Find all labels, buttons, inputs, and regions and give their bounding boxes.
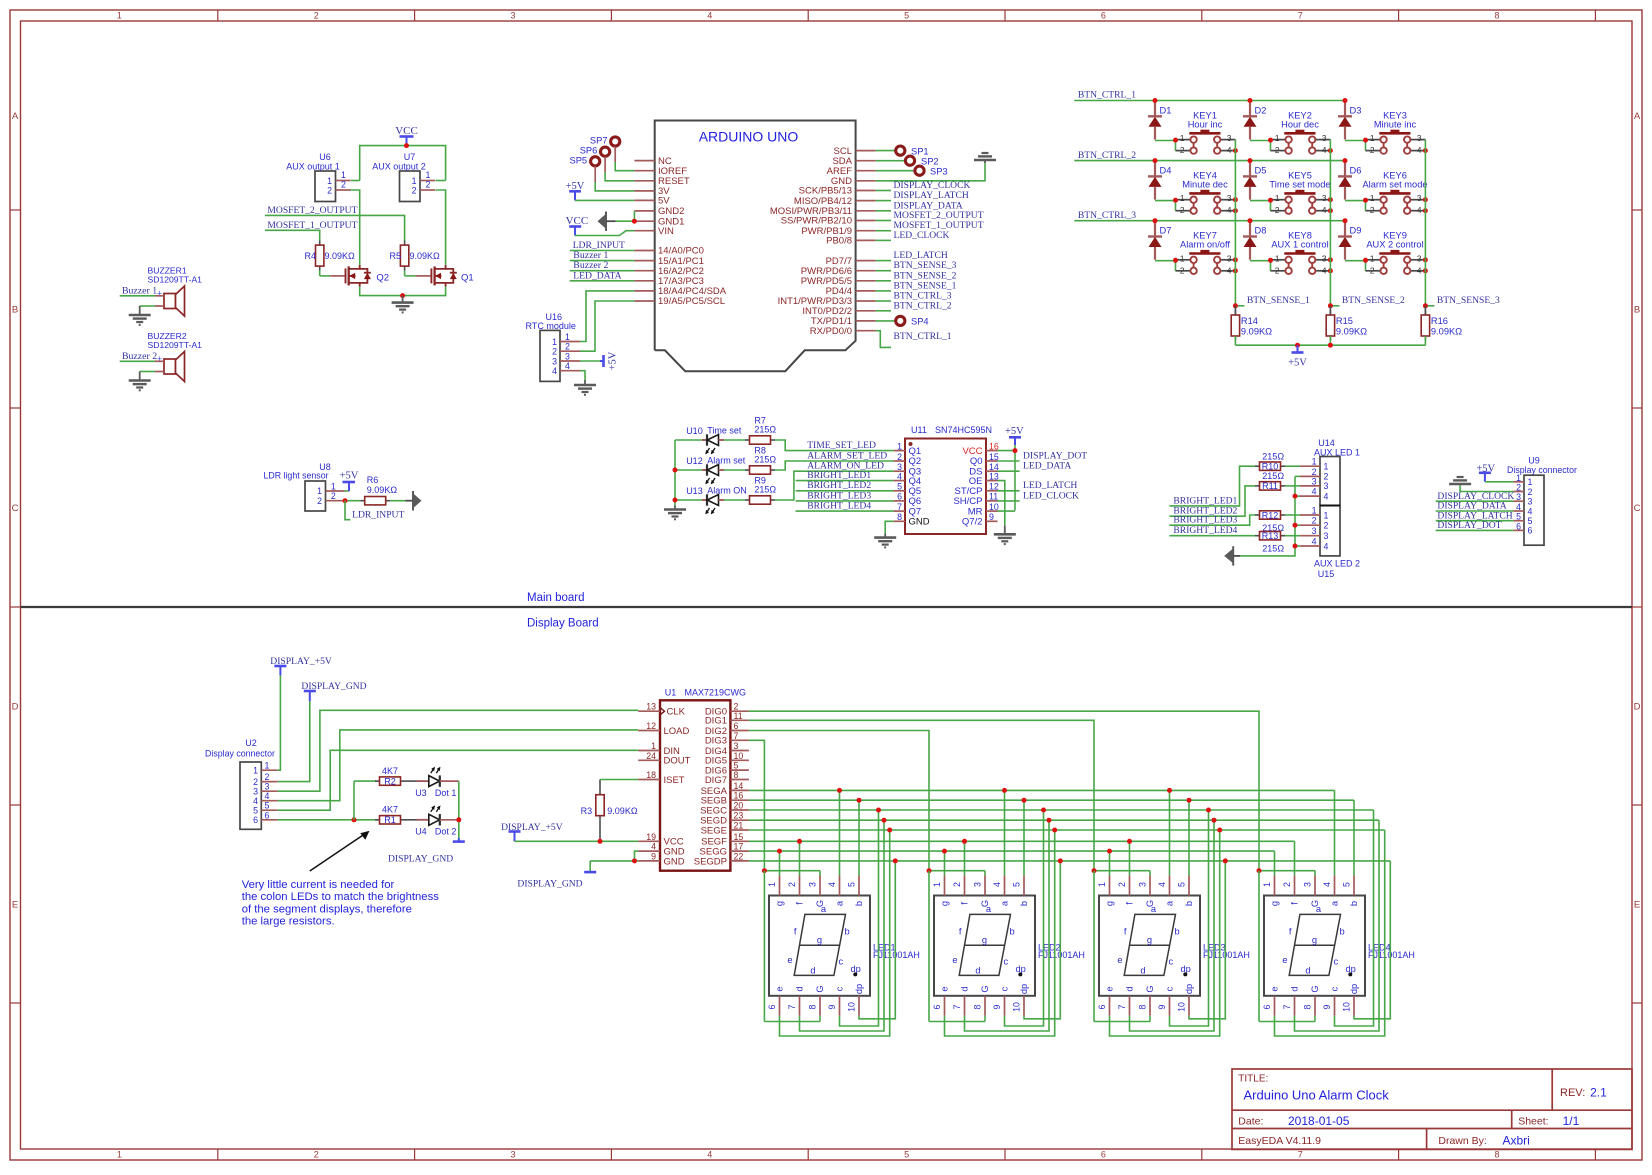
diode D6 [1338,158,1361,200]
svg-text:AUX LED 1: AUX LED 1 [1314,448,1360,458]
svg-text:3: 3 [1417,193,1422,203]
LED U12 Alarm set [686,456,746,485]
net Buzzer 2 [570,260,635,271]
svg-text:2: 2 [314,11,319,21]
svg-text:R16: R16 [1431,316,1448,326]
svg-text:g: g [1270,901,1280,906]
svg-text:a: a [1330,900,1340,906]
svg-text:2: 2 [317,496,322,506]
svg-text:e: e [775,986,785,991]
svg-text:D8: D8 [1255,226,1267,236]
power DISPLAY_GND (U1) [517,861,596,890]
svg-text:BTN_SENSE_1: BTN_SENSE_1 [1247,295,1310,306]
svg-text:15: 15 [734,832,744,842]
svg-text:4: 4 [1312,487,1317,497]
net BTN_SENSE_2 [1328,295,1405,308]
svg-text:U10: U10 [686,426,703,436]
wire GND4/GND9 [590,851,638,863]
svg-text:G: G [1145,985,1155,992]
wire VCC to VIN [575,231,634,236]
svg-text:9.09KΩ: 9.09KΩ [367,485,398,495]
svg-text:1: 1 [1516,473,1521,483]
svg-text:Alarm set: Alarm set [707,456,746,466]
svg-text:e: e [1282,955,1287,965]
wire led cathode rail [673,440,703,506]
svg-text:a: a [821,904,827,914]
IC ARDUINO UNO [634,121,875,372]
svg-text:+5V: +5V [340,471,359,482]
svg-text:4: 4 [1417,205,1422,215]
svg-text:2: 2 [1180,205,1185,215]
pad SP3 [876,166,948,176]
svg-text:g: g [940,901,950,906]
display LED1 FJ11001AH [767,876,920,1016]
power +5V (U8) [340,471,359,492]
svg-text:U4: U4 [415,827,427,837]
net BRIGHT_LED2 [796,480,894,491]
svg-text:9: 9 [992,1004,1002,1009]
svg-text:D: D [1634,702,1641,713]
svg-text:3: 3 [1322,133,1327,143]
pad SP2 [876,156,939,166]
svg-text:2: 2 [1275,265,1280,275]
net DISPLAY_LATCH [876,190,969,201]
ground (earth up) [974,153,996,163]
net BTN_CTRL_1 [1074,90,1345,101]
svg-text:1: 1 [341,170,346,180]
wire buzzer1 low [140,305,164,307]
svg-text:1: 1 [327,176,332,186]
svg-text:2: 2 [1282,882,1292,887]
svg-text:BTN_CTRL_2: BTN_CTRL_2 [1078,150,1136,161]
svg-text:MOSFET_2_OUTPUT: MOSFET_2_OUTPUT [267,205,357,216]
svg-text:1: 1 [1370,193,1375,203]
net BTN_SENSE_1 [1233,295,1310,308]
svg-text:3: 3 [1417,253,1422,263]
svg-text:1: 1 [1370,253,1375,263]
wire SEGG bus [749,850,1275,852]
wire U7.2 to Q1 drain [435,190,445,265]
junction [400,293,405,298]
svg-text:Very little current is needed: Very little current is needed for [242,879,395,891]
svg-text:7: 7 [734,731,739,741]
svg-text:2: 2 [1180,145,1185,155]
svg-text:B: B [12,305,18,316]
svg-text:10: 10 [1012,1002,1022,1012]
wire VCC (U1) [515,839,639,844]
svg-text:1: 1 [932,882,942,887]
svg-text:4: 4 [1227,205,1232,215]
svg-text:c: c [1330,986,1340,991]
svg-text:215Ω: 215Ω [754,425,776,435]
net DISPLAY_DATA [876,200,963,211]
svg-text:2: 2 [1370,265,1375,275]
svg-text:SP5: SP5 [570,155,588,165]
svg-text:+5V: +5V [1005,426,1024,437]
svg-text:f: f [960,902,970,905]
resistor R1 4K7 [375,805,405,825]
resistor R11 215Ω [1255,471,1300,491]
wire A5 to RTC2 [580,301,634,351]
svg-text:G: G [815,985,825,992]
svg-text:GND: GND [909,517,930,528]
wires LED2 connections [927,788,1063,1036]
svg-text:RTC module: RTC module [526,321,576,331]
svg-text:6: 6 [1516,521,1521,531]
power +5V (U9) [1476,463,1513,482]
svg-text:d: d [1125,986,1135,991]
svg-text:g: g [982,935,987,945]
svg-text:R14: R14 [1241,316,1258,326]
svg-text:TIME_SET_LED: TIME_SET_LED [807,440,876,451]
wire +5V to 5V pin [575,199,634,201]
svg-text:SP4: SP4 [911,317,929,327]
svg-text:FJ11001AH: FJ11001AH [1368,950,1415,960]
net LED_DATA [570,270,635,281]
svg-text:EasyEDA V4.11.9: EasyEDA V4.11.9 [1238,1135,1321,1147]
svg-text:U3: U3 [415,788,427,798]
svg-text:Minute inc: Minute inc [1374,119,1417,129]
buzzer BUZZER2 [148,331,203,382]
svg-text:dp: dp [854,984,864,994]
svg-text:b: b [1340,927,1345,937]
svg-text:G: G [980,985,990,992]
display LED2 FJ11001AH [932,876,1085,1016]
svg-text:215Ω: 215Ω [754,485,776,495]
svg-text:Display Board: Display Board [527,618,599,630]
svg-text:2: 2 [1117,882,1127,887]
svg-text:13: 13 [989,471,999,481]
svg-text:U6: U6 [319,152,331,162]
svg-text:8: 8 [734,770,739,780]
svg-text:SD1209TT-A1: SD1209TT-A1 [148,340,203,350]
svg-text:1: 1 [1370,133,1375,143]
IC U1 MAX7219CWG [638,687,749,870]
svg-text:SP1: SP1 [911,146,929,156]
svg-text:12: 12 [646,721,656,731]
svg-text:R15: R15 [1336,316,1353,326]
svg-text:SD1209TT-A1: SD1209TT-A1 [148,275,203,285]
svg-text:5: 5 [847,882,857,887]
svg-text:6: 6 [1528,526,1533,536]
svg-text:2: 2 [331,491,336,501]
svg-text:DOUT: DOUT [664,756,691,767]
svg-text:Main board: Main board [527,592,585,604]
net DISPLAY_DOT (U11) [998,450,1088,461]
svg-text:D1: D1 [1160,106,1172,116]
svg-text:3: 3 [1417,133,1422,143]
connector U14 AUX LED 1 [1300,438,1360,506]
svg-text:BTN_CTRL_1: BTN_CTRL_1 [1078,90,1136,101]
svg-text:R1: R1 [384,815,396,825]
net LED_DATA (U11) [998,461,1072,472]
svg-text:1/1: 1/1 [1563,1114,1580,1128]
junction [343,498,348,503]
wire DIG3 bus [749,740,765,870]
wire buzzer2 low [140,371,164,373]
svg-text:d: d [795,986,805,991]
svg-text:LDR light sensor: LDR light sensor [263,471,328,481]
resistor R15 9.09KΩ [1326,306,1367,345]
svg-text:9.09KΩ: 9.09KΩ [325,251,356,261]
wire R5 to Q1 gate [405,271,431,276]
svg-text:3: 3 [1312,526,1317,536]
svg-text:b: b [845,927,850,937]
svg-text:g: g [1105,901,1115,906]
wire DIG2 bus [749,731,929,871]
svg-text:+: + [157,289,162,299]
diode D4 [1148,158,1171,200]
svg-text:3: 3 [808,882,818,887]
svg-text:4: 4 [651,842,656,852]
wire SEGB bus [749,799,1354,801]
svg-text:e: e [952,955,957,965]
svg-text:15: 15 [989,452,999,462]
power DISPLAY_+5V (U2) [270,656,332,675]
svg-text:8: 8 [808,1004,818,1009]
wire gnd to U2.2 [278,701,310,781]
svg-text:e: e [1105,986,1115,991]
svg-text:SEGE: SEGE [701,825,727,836]
net BTN_CTRL_2 [1074,150,1345,161]
svg-text:BTN_CTRL_3: BTN_CTRL_3 [1078,210,1136,221]
junction key KEY2 [1328,148,1333,153]
svg-text:18: 18 [646,770,656,780]
svg-text:Buzzer 1: Buzzer 1 [122,286,157,297]
svg-text:a: a [1165,900,1175,906]
svg-text:R5: R5 [389,251,401,261]
svg-text:f: f [1124,927,1127,937]
svg-text:4: 4 [1324,491,1329,501]
svg-text:3: 3 [1227,133,1232,143]
svg-text:3: 3 [565,352,570,362]
pad SP1 [876,146,929,156]
wire BTN_SENSE_3 column [1424,140,1426,306]
wire GND1/GND2 [616,211,637,224]
svg-text:5: 5 [904,11,909,21]
svg-text:4K7: 4K7 [382,766,398,776]
wire U9.2 to ground [1460,484,1513,492]
svg-text:3: 3 [1227,253,1232,263]
svg-text:LDR_INPUT: LDR_INPUT [352,510,404,521]
svg-text:1: 1 [412,176,417,186]
power +5V (U11) [1005,426,1024,445]
pad SP6 [580,146,610,157]
connector U15 AUX LED 2 [1300,506,1360,580]
ground [574,380,596,395]
svg-text:SN74HC595N: SN74HC595N [935,425,992,435]
net LED_LATCH (U11) [998,480,1078,491]
svg-text:a: a [1000,900,1010,906]
svg-text:b: b [1349,901,1359,906]
wire U6.2 to Q2 drain [351,190,360,265]
svg-text:BRIGHT_LED4: BRIGHT_LED4 [1173,525,1237,536]
svg-text:7: 7 [1282,1004,1292,1009]
svg-text:11: 11 [734,711,743,721]
LED U3 Dot 1 [405,767,459,798]
resistor R9 215Ω [724,476,776,505]
svg-text:10: 10 [1177,1002,1187,1012]
svg-text:16: 16 [989,441,999,451]
resistor R7 215Ω [724,416,776,445]
wire SP5-3V [595,166,634,191]
resistor R6 9.09KΩ [345,475,398,505]
svg-text:E: E [12,900,18,911]
svg-text:LOAD: LOAD [664,726,690,737]
annotation note [242,879,440,928]
svg-text:c: c [1004,957,1009,967]
display LED4 FJ11001AH [1262,876,1415,1016]
svg-text:d: d [960,986,970,991]
svg-text:7: 7 [1117,1004,1127,1009]
svg-text:Display connector: Display connector [205,749,275,759]
svg-text:D2: D2 [1255,106,1267,116]
svg-text:19: 19 [646,832,656,842]
svg-text:2: 2 [1275,145,1280,155]
svg-text:215Ω: 215Ω [1262,452,1284,462]
LED U10 Time set [686,426,742,455]
wire DIG1 bus [749,720,1094,870]
svg-text:Dot 1: Dot 1 [435,788,457,798]
svg-text:3: 3 [1138,882,1148,887]
svg-text:AUX output 2: AUX output 2 [372,162,426,172]
svg-text:4: 4 [707,1150,712,1160]
power +5V (keys) [1288,345,1307,368]
resistor R5 9.09KΩ [389,241,440,271]
LED U13 Alarm ON [686,486,747,515]
svg-text:U1: U1 [665,687,677,697]
svg-text:1: 1 [331,482,336,492]
svg-text:2: 2 [327,186,332,196]
net LDR_INPUT [570,240,635,251]
wire U2.3 to CLK [278,710,639,791]
svg-text:U9: U9 [1528,456,1540,466]
svg-text:AUX 2 control: AUX 2 control [1366,240,1423,250]
wire BTN_SENSE_2 column [1329,140,1331,306]
svg-text:5: 5 [1342,882,1352,887]
wire SEGE bus [749,829,1385,831]
connector U6 AUX output 1 [286,152,350,202]
pushbutton KEY6 Alarm set mode [1345,170,1428,215]
wire R6 to ground [390,500,405,502]
svg-text:1: 1 [767,882,777,887]
svg-text:1: 1 [1275,253,1280,263]
svg-text:3: 3 [1322,193,1327,203]
svg-text:c: c [839,957,844,967]
svg-text:ISET: ISET [664,775,685,786]
svg-text:f: f [959,927,962,937]
svg-text:ARDUINO UNO: ARDUINO UNO [699,129,799,145]
svg-text:AUX LED 2: AUX LED 2 [1314,559,1360,569]
svg-text:d: d [1305,966,1310,976]
svg-text:6: 6 [767,1004,777,1009]
svg-text:6: 6 [932,1004,942,1009]
svg-text:2: 2 [253,777,258,787]
wire VCC rail [351,146,446,181]
net Buzzer 2 wire [120,351,164,362]
svg-text:4: 4 [992,882,1002,887]
wire OE to ground [998,481,1005,526]
svg-text:g: g [1147,935,1152,945]
svg-text:U2: U2 [245,738,257,748]
svg-text:G: G [1310,985,1320,992]
svg-text:B: B [1634,305,1640,316]
svg-text:6: 6 [897,492,902,502]
wire R7 to Q1pin [775,440,894,451]
svg-text:4: 4 [1227,265,1232,275]
ground [129,306,151,325]
svg-text:f: f [794,927,797,937]
svg-text:3: 3 [1528,497,1533,507]
wires LED3 connections [1092,788,1228,1036]
svg-text:1: 1 [1312,457,1317,467]
svg-text:e: e [1117,955,1122,965]
wire DIG0 bus [749,711,1259,871]
wire aux led common [1240,476,1300,556]
ground [874,534,896,548]
svg-text:d: d [1140,966,1145,976]
net MOSFET_2_OUTPUT [265,205,405,241]
svg-text:c: c [835,986,845,991]
svg-text:R6: R6 [367,475,379,485]
svg-text:2: 2 [1370,145,1375,155]
diode D9 [1338,218,1361,260]
resistor R2 4K7 [375,766,405,786]
svg-text:4: 4 [1322,882,1332,887]
wire U2.6 to colon LEDs [278,781,379,822]
resistor R4 9.09KΩ [304,241,355,271]
svg-text:4: 4 [1322,205,1327,215]
svg-text:3: 3 [973,882,983,887]
svg-text:Q1: Q1 [461,272,474,283]
svg-text:3: 3 [253,787,258,797]
svg-text:2018-01-05: 2018-01-05 [1288,1114,1350,1128]
net BRIGHT_LED4 (U14/15) [1169,525,1255,536]
svg-text:A: A [1634,111,1641,122]
svg-text:1: 1 [1324,510,1329,520]
svg-text:10: 10 [989,502,999,512]
svg-text:c: c [1000,986,1010,991]
svg-text:Q1: Q1 [909,446,922,457]
svg-text:3: 3 [1324,531,1329,541]
svg-text:Q7/2: Q7/2 [962,517,983,528]
svg-text:6: 6 [734,721,739,731]
LED U4 Dot 2 [405,805,459,836]
svg-text:FJ11001AH: FJ11001AH [873,950,920,960]
svg-text:4: 4 [707,11,712,21]
svg-text:4: 4 [1322,145,1327,155]
junction key KEY5 [1328,197,1333,213]
svg-text:2: 2 [426,180,431,190]
svg-text:2: 2 [1370,205,1375,215]
ground [664,506,686,520]
svg-text:R12: R12 [1262,510,1279,520]
svg-text:U7: U7 [404,152,416,162]
net LED_CLOCK (U11) [998,490,1080,501]
pushbutton KEY3 Minute inc [1345,110,1425,155]
net LED_CLOCK [876,230,950,241]
connector U16 RTC module [526,312,580,381]
svg-text:10: 10 [847,1002,857,1012]
svg-text:b: b [854,901,864,906]
wire RTC4 to ground [580,371,585,380]
net LED_LATCH [876,250,948,261]
net Buzzer 1 [570,250,635,261]
svg-text:4: 4 [1417,145,1422,155]
svg-text:R2: R2 [384,776,396,786]
diode D8 [1243,218,1266,260]
svg-text:U11: U11 [911,425,927,435]
